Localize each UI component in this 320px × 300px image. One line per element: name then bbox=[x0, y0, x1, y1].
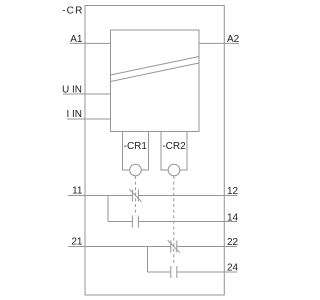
coil -CR1 body bbox=[123, 132, 149, 171]
NC contact CR2 bar right bbox=[176, 241, 178, 253]
svg-text:22: 22 bbox=[227, 237, 239, 248]
NC contact CR1 bar right bbox=[137, 190, 139, 202]
NC contact CR2 slash bbox=[168, 240, 180, 252]
setpoint indicator line lower bbox=[111, 63, 200, 82]
wire 24 right segment bbox=[177, 271, 237, 273]
NC contact CR1 slash bbox=[129, 189, 141, 201]
wire 24 left segment bbox=[148, 271, 171, 273]
wire A1 bbox=[70, 42, 111, 44]
svg-text:12: 12 bbox=[227, 186, 239, 197]
wire I IN bbox=[67, 118, 111, 120]
svg-text:A2: A2 bbox=[227, 34, 240, 45]
wire 12 right segment bbox=[138, 195, 237, 197]
svg-text:14: 14 bbox=[227, 213, 239, 224]
mechanical link dashed line from -CR1 bbox=[134, 176, 136, 216]
wire 22 right segment bbox=[177, 246, 237, 248]
svg-text:I IN: I IN bbox=[66, 109, 82, 120]
coil -CR1 circle bbox=[130, 164, 142, 176]
wire 21 left segment bbox=[68, 246, 171, 248]
mechanical link dashed line from -CR2 bbox=[173, 176, 175, 266]
NC contact CR2 bar left bbox=[170, 241, 172, 253]
wire 14 left segment bbox=[108, 221, 132, 223]
svg-text:-CR1: -CR1 bbox=[124, 141, 148, 152]
svg-text:21: 21 bbox=[71, 237, 83, 248]
NO contact CR1 bar right bbox=[137, 216, 139, 228]
wire A2 bbox=[199, 42, 239, 44]
setpoint indicator line upper bbox=[111, 57, 200, 76]
branch wire 21 to 24 bbox=[147, 247, 149, 273]
svg-text:-CR2: -CR2 bbox=[162, 141, 186, 152]
svg-text:A1: A1 bbox=[70, 34, 83, 45]
svg-text:24: 24 bbox=[227, 263, 239, 274]
coil -CR2 body bbox=[161, 132, 187, 171]
svg-text:U IN: U IN bbox=[62, 85, 82, 96]
svg-text:-CR: -CR bbox=[62, 6, 83, 17]
wire U IN bbox=[63, 93, 111, 95]
monitoring relay body -CR bbox=[111, 30, 200, 132]
NO contact CR1 bar left bbox=[131, 216, 133, 228]
wire 14 right segment bbox=[138, 221, 237, 223]
NO contact CR2 bar right bbox=[176, 266, 178, 278]
wire 11 left segment bbox=[68, 195, 132, 197]
outer enclosure box bbox=[85, 6, 224, 296]
NC contact CR1 bar left bbox=[131, 190, 133, 202]
branch wire 11 to 14 bbox=[107, 196, 109, 222]
coil -CR2 circle bbox=[168, 164, 180, 176]
NO contact CR2 bar left bbox=[170, 266, 172, 278]
svg-text:11: 11 bbox=[72, 186, 83, 197]
